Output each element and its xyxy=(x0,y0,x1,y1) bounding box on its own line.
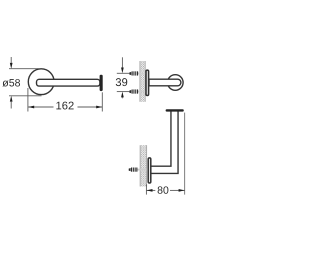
dim 39 bottom extension line xyxy=(117,91,130,93)
wall left edge line (bottom view) xyxy=(139,145,141,186)
wall plate (bottom view) xyxy=(148,158,151,183)
dim ø58 top arrow xyxy=(10,63,13,69)
dim ø58 bottom stub line xyxy=(10,101,12,108)
dim 162 line right segment xyxy=(78,106,103,108)
wall (bottom view) hatched band xyxy=(140,145,147,186)
wall left edge line xyxy=(139,61,141,102)
wall plate (side view) xyxy=(146,70,149,95)
dim ø58 bottom arrow xyxy=(10,96,13,102)
rod end cap (front) xyxy=(100,75,103,91)
end disc (side view) xyxy=(168,75,184,91)
wall face line xyxy=(144,61,146,102)
dim 80 right extension line xyxy=(184,113,186,195)
dim 39 bottom stub line xyxy=(121,97,123,98)
dim ø58 top stub line xyxy=(10,57,12,63)
dim 80 left extension line xyxy=(145,184,147,194)
rod outer edge (bottom view L-shape) xyxy=(151,111,178,173)
dim 39 top stub line xyxy=(121,57,123,68)
dim ø58 top extension line xyxy=(9,68,39,70)
dim 80 line left segment xyxy=(147,189,156,191)
dim 80 right arrow xyxy=(179,189,185,192)
rod (side view) xyxy=(149,79,181,86)
dim ø58 bottom extension line xyxy=(9,95,42,97)
rod (front) xyxy=(37,79,100,86)
dim 162 right arrow xyxy=(96,106,102,109)
dim 162 left extension line xyxy=(27,88,29,112)
screw top (side view) xyxy=(129,71,145,75)
screw (bottom view) xyxy=(129,168,147,172)
dim 162 line left segment xyxy=(28,106,53,108)
dim 39 top arrow xyxy=(121,68,124,74)
rod inner edge (bottom view L-shape) xyxy=(151,111,171,166)
flange circle xyxy=(28,69,54,95)
dim 162 left arrow xyxy=(28,106,34,109)
dim 39 bottom arrow xyxy=(121,92,124,98)
top cap disc (bottom view) xyxy=(166,109,184,111)
dim 80 line right segment xyxy=(170,189,185,191)
label ø58 xyxy=(2,79,20,87)
label 39 xyxy=(116,78,128,86)
wall (side view) hatched band xyxy=(140,61,146,102)
dim 162 right extension line xyxy=(101,92,103,111)
dim 80 left arrow xyxy=(147,189,153,192)
dim 39 top extension line xyxy=(117,72,130,74)
screw bottom (side view) xyxy=(129,89,145,93)
label 162 xyxy=(56,102,73,110)
label 80 xyxy=(158,186,169,193)
wall face line (bottom view) xyxy=(146,145,148,186)
